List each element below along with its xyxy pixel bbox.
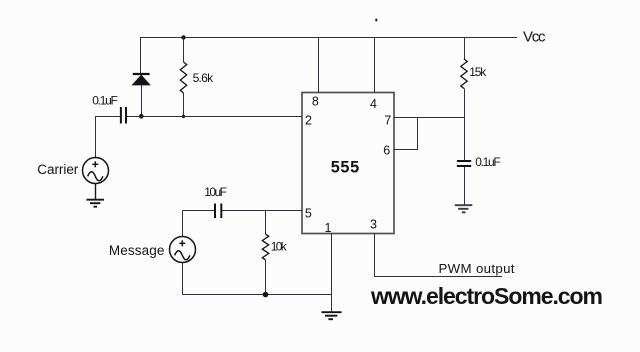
resistor R2 15k bbox=[461, 59, 467, 89]
svg-text:PWM output: PWM output bbox=[439, 261, 515, 276]
source V2 message bbox=[170, 237, 196, 263]
svg-text:7: 7 bbox=[384, 113, 391, 127]
capacitor C1 0.1uF bbox=[121, 107, 126, 124]
svg-text:www.electroSome.com: www.electroSome.com bbox=[370, 283, 603, 309]
svg-text:1: 1 bbox=[325, 221, 332, 235]
resistor R1 5.6k bbox=[180, 62, 186, 93]
ground (pin 1) bbox=[322, 312, 342, 319]
svg-text:Message: Message bbox=[109, 243, 164, 258]
wire: carrier to ground bbox=[95, 184, 97, 200]
wire: R2 to pin7 net bbox=[464, 89, 466, 118]
wire: pin 1 to ground bbox=[331, 234, 333, 313]
junction: Vcc rail / R1 bbox=[181, 35, 185, 39]
wire: pin 3 PWM output bbox=[375, 234, 503, 277]
capacitor C3 0.1uF bbox=[457, 161, 471, 166]
wire: C1 to carrier source bbox=[96, 117, 120, 158]
wire: pin5 net right bbox=[222, 210, 302, 212]
wire: pin 8 to Vcc rail bbox=[318, 37, 320, 93]
artifact dot bbox=[375, 19, 377, 22]
wire: pin 4 to Vcc rail bbox=[374, 37, 376, 93]
svg-text:8: 8 bbox=[312, 95, 319, 109]
wire: bottom net bbox=[183, 294, 332, 296]
wire: D1 anode to pin2 net bbox=[141, 85, 143, 116]
ground (carrier) bbox=[87, 200, 105, 207]
resistor R3 10k bbox=[262, 234, 268, 260]
wire: pin 7 to pin 6 short bbox=[394, 118, 418, 150]
svg-text:5.6k: 5.6k bbox=[193, 71, 215, 85]
svg-text:10k: 10k bbox=[271, 240, 288, 254]
wire: pin2 net bbox=[127, 116, 303, 118]
wire: pin 7 net bbox=[394, 117, 465, 119]
svg-text:0.1uF: 0.1uF bbox=[92, 94, 118, 108]
svg-text:555: 555 bbox=[331, 158, 360, 176]
svg-text:10uF: 10uF bbox=[204, 185, 227, 199]
junction: R3 / bottom net bbox=[263, 292, 269, 298]
wire: Vcc top rail bbox=[140, 37, 517, 39]
junction: R1 / pin2 net bbox=[182, 115, 185, 118]
wire: C3 to ground bbox=[464, 167, 466, 205]
svg-text:5: 5 bbox=[305, 206, 312, 220]
wire: Vcc rail to R2 bbox=[464, 37, 466, 59]
svg-text:Carrier: Carrier bbox=[37, 162, 79, 177]
svg-text:6: 6 bbox=[383, 144, 390, 158]
svg-text:15k: 15k bbox=[469, 65, 487, 79]
svg-text:4: 4 bbox=[370, 97, 377, 111]
wire: message to bottom net bbox=[182, 263, 184, 295]
svg-text:3: 3 bbox=[370, 218, 377, 232]
svg-text:Vcc: Vcc bbox=[523, 29, 546, 46]
wire: pin5 net to message source bbox=[182, 211, 184, 237]
wire: R3 to bottom net bbox=[265, 260, 267, 295]
wire: pin5 net to R3 bbox=[265, 211, 267, 235]
wire: Vcc rail to R1 bbox=[183, 37, 185, 62]
svg-text:0.1uF: 0.1uF bbox=[475, 155, 501, 169]
junction: D1 / pin2 net bbox=[139, 114, 144, 119]
wire: pin7 net to C3 bbox=[464, 118, 466, 161]
source V1 carrier bbox=[83, 158, 109, 184]
wire: pin5 net left bbox=[183, 210, 215, 212]
svg-text:2: 2 bbox=[305, 114, 312, 128]
ground (C3) bbox=[455, 205, 473, 212]
diode D1 bbox=[133, 74, 150, 85]
wire: R1 to pin2 net bbox=[183, 93, 185, 116]
wire: Vcc rail to diode D1 bbox=[140, 37, 142, 74]
capacitor C2 10uF bbox=[215, 204, 221, 219]
IC U1 555 bbox=[302, 93, 394, 234]
